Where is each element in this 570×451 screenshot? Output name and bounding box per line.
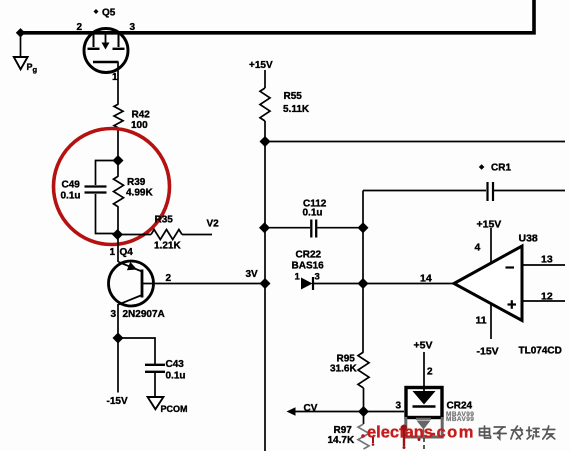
svg-text:3: 3 [315,272,320,283]
svg-text:1.21K: 1.21K [154,241,181,252]
svg-text:+15V: +15V [249,60,273,71]
svg-text:R42: R42 [132,110,151,121]
svg-text:3: 3 [396,401,402,412]
svg-text:3: 3 [111,309,117,320]
svg-text:CV: CV [304,403,318,414]
svg-text:CR24: CR24 [447,401,473,412]
svg-text:elecfans: elecfans [367,424,433,442]
svg-text:2: 2 [77,22,83,33]
svg-text:CR22: CR22 [296,250,322,261]
svg-text:2: 2 [166,273,172,284]
svg-text:12: 12 [541,291,553,303]
svg-text:4.99K: 4.99K [126,188,153,199]
svg-text:4: 4 [475,242,481,254]
svg-text:0.1u: 0.1u [303,208,323,219]
svg-text:TL074CD: TL074CD [519,346,562,357]
svg-text:R55: R55 [284,91,303,102]
svg-text:2: 2 [427,367,433,378]
svg-text:+5V: +5V [414,340,433,352]
svg-text:0.1u: 0.1u [166,371,186,382]
svg-text:R35: R35 [155,215,174,226]
svg-text:14: 14 [420,273,432,285]
svg-text:2N2907A: 2N2907A [123,309,165,320]
svg-text:1: 1 [295,272,301,283]
svg-text:0.1u: 0.1u [61,191,81,202]
svg-text:Q4: Q4 [120,247,134,258]
svg-text:BAS16: BAS16 [292,261,325,272]
svg-text:3V: 3V [246,269,259,280]
svg-text:U38: U38 [519,233,538,245]
svg-text:com: com [437,424,475,442]
svg-text:31.6K: 31.6K [330,364,357,375]
svg-text:1: 1 [112,72,118,83]
svg-text:PCOM: PCOM [161,404,188,414]
svg-text:V2: V2 [207,219,220,230]
svg-text:R39: R39 [127,177,146,188]
svg-text:-15V: -15V [107,396,128,407]
svg-text:g: g [33,65,38,74]
svg-text:-15V: -15V [477,346,499,358]
svg-text:C43: C43 [166,359,185,370]
svg-text:100: 100 [131,120,148,131]
svg-text:13: 13 [541,254,553,266]
svg-text:14.7K: 14.7K [328,435,355,446]
svg-text:+15V: +15V [477,219,502,231]
svg-text:3: 3 [130,22,136,33]
svg-text:5.11K: 5.11K [283,104,310,115]
svg-text:CR1: CR1 [491,163,511,174]
svg-text:1: 1 [110,247,116,258]
svg-text:MBAV99: MBAV99 [446,416,474,423]
svg-text:Q5: Q5 [102,8,116,19]
svg-text:C49: C49 [62,180,81,191]
svg-text:11: 11 [476,315,487,327]
